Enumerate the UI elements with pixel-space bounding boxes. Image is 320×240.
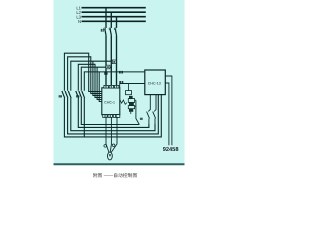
contactor KM2 pole 1 bbox=[76, 91, 79, 98]
motor lead 2 bbox=[110, 117, 111, 152]
tap junction blob bbox=[104, 71, 107, 74]
breaker QF pole 3 hinge bbox=[114, 28, 116, 30]
wire loop 5 with tap to phase B bbox=[81, 67, 111, 91]
starter bottom terminal boxes bbox=[103, 115, 107, 118]
white page background bbox=[0, 0, 240, 180]
motor joint circle left bbox=[104, 145, 107, 148]
label A2 bbox=[119, 71, 123, 74]
relay right bracket 2 bbox=[165, 83, 169, 145]
relay bottom lead 2 bbox=[154, 95, 156, 112]
svg-text:附图 ——自动控制图: 附图 ——自动控制图 bbox=[93, 173, 138, 178]
wire phase C to unit bbox=[116, 36, 118, 86]
svg-text:92458: 92458 bbox=[163, 147, 179, 153]
panel bottom border bbox=[54, 163, 185, 165]
wire phase A to unit bbox=[105, 36, 107, 86]
stack drop wire bbox=[136, 100, 139, 124]
breaker QF pole 2 hinge bbox=[109, 28, 111, 30]
relay bottom lead 1 bbox=[148, 95, 150, 112]
wire loop 3 branch down bbox=[93, 61, 102, 95]
wire loop 1 bbox=[64, 53, 101, 91]
bus line L1 bbox=[82, 7, 146, 9]
label M in motor bbox=[109, 154, 111, 156]
breaker QF pole 3 blade bbox=[115, 30, 116, 36]
starter top terminal boxes bbox=[104, 85, 108, 88]
wire KM1-3 bottom loop bbox=[71, 98, 155, 131]
contactor KM1 pole 3 bbox=[68, 91, 71, 98]
KT contact 1 bbox=[147, 112, 150, 119]
stack stub right upper bbox=[135, 99, 136, 101]
wire KM2-1 bottom loop bbox=[78, 98, 149, 127]
breaker QF pole 2 blade bbox=[110, 30, 111, 36]
wire drop phase B bbox=[110, 12, 112, 28]
wire loop 5 branch down bbox=[97, 67, 102, 99]
KT contact 2 bbox=[153, 112, 156, 119]
relay box CHC-13 bbox=[145, 70, 166, 95]
motor lead 1 bbox=[106, 117, 109, 152]
wire drop phase C bbox=[116, 17, 118, 28]
label KM2 bbox=[76, 95, 79, 97]
labels bbox=[59, 6, 179, 157]
wire loop 6 branch down bbox=[99, 72, 102, 102]
plug body upper bbox=[128, 99, 134, 103]
relay right bracket 1 bbox=[165, 76, 172, 145]
plug body lower bbox=[128, 106, 134, 109]
wire loop 6 / A2 line to relay bbox=[84, 72, 145, 91]
bus line L2 bbox=[82, 11, 146, 13]
wire KM2-2 bottom loop bbox=[81, 98, 139, 125]
wire A4 stub up bbox=[119, 84, 121, 88]
motor joint circle right bbox=[112, 144, 115, 147]
label KT bbox=[140, 118, 143, 120]
motor body bbox=[108, 152, 113, 160]
plug top box bbox=[126, 91, 132, 95]
wire loop 3 with tap to phase C bbox=[71, 61, 117, 91]
plug top link bbox=[128, 84, 130, 91]
cyan schematic panel bbox=[54, 0, 185, 165]
caption bbox=[93, 173, 138, 178]
label A4 bbox=[119, 81, 123, 84]
wire KM1-1 bottom loop bbox=[64, 95, 161, 137]
wire A4 line to relay bbox=[120, 83, 145, 85]
contactor KM1 pole 2 bbox=[65, 91, 68, 98]
svg-text:N: N bbox=[78, 19, 81, 24]
contactor KM2 pole 2 bbox=[79, 91, 82, 98]
tap terminal box 2 bbox=[106, 65, 110, 69]
label QF bbox=[101, 29, 104, 32]
tap terminal box 1 bbox=[112, 60, 116, 64]
label KM1 bbox=[59, 95, 62, 97]
breaker QF pole 1 hinge bbox=[104, 28, 106, 30]
plug contact 2 bbox=[129, 102, 134, 105]
contactor KM2 pole 3 bbox=[82, 91, 85, 98]
svg-text:CHC-1: CHC-1 bbox=[104, 100, 115, 104]
breaker QF pole 1 blade bbox=[105, 30, 106, 36]
svg-text:CHC-13: CHC-13 bbox=[148, 81, 161, 85]
starter unit body bbox=[102, 88, 120, 115]
bus line L3 bbox=[82, 16, 146, 18]
contactor KM1 pole 1 bbox=[62, 91, 65, 98]
wire loop 4 bbox=[78, 64, 102, 97]
motor lead 3 bbox=[111, 117, 117, 152]
thermal element zigzag bbox=[120, 100, 127, 105]
wire drop phase A bbox=[105, 8, 107, 28]
wire phase B to unit bbox=[110, 36, 112, 86]
starter bottom terminal numbers bbox=[104, 115, 116, 117]
wire KM1-2 bottom loop bbox=[68, 95, 159, 134]
plug contact 3 bbox=[129, 109, 133, 112]
wire KM2-3 down to bottom bbox=[83, 98, 85, 137]
starter top terminal numbers bbox=[105, 86, 117, 88]
plug contact 1 bbox=[129, 96, 133, 99]
stack stub right lower bbox=[135, 105, 136, 107]
wire loop 2 bbox=[68, 57, 102, 94]
bus line N bbox=[82, 20, 146, 22]
plug bottom stub bbox=[130, 112, 132, 114]
